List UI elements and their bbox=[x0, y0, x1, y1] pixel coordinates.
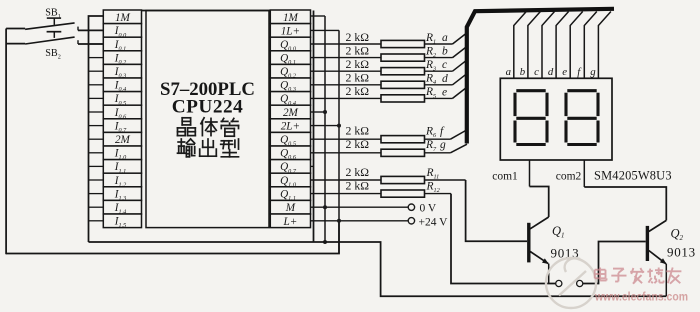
wire 2M to M bus bbox=[311, 111, 326, 113]
watermark text 电子发烧友 bbox=[595, 268, 682, 284]
wire R4 to segment bus (diagonal) bbox=[453, 74, 467, 85]
svg-text:9013: 9013 bbox=[667, 245, 696, 260]
wire com1 to Q1 collector bbox=[530, 187, 549, 218]
terminal Q0.7 (PLC right, output) bbox=[270, 160, 313, 175]
resistor R2 2kΩ (segment b) bbox=[311, 54, 453, 61]
terminal I0.5 (PLC left, input) bbox=[89, 92, 142, 107]
junction M bus / 0V rail bbox=[323, 240, 327, 244]
terminal Q0.4 (PLC right, output) bbox=[270, 92, 310, 107]
terminal 2M (PLC left, input) bbox=[89, 132, 142, 146]
svg-text:b: b bbox=[520, 66, 526, 78]
terminal Q0.1 (PLC right, output) bbox=[270, 51, 310, 66]
transistor Q1 (NPN 9013) bbox=[527, 217, 549, 264]
display digit 1 (7-segment) bbox=[515, 91, 547, 145]
terminal I1.4 (PLC left, input) bbox=[89, 200, 142, 215]
svg-text:+24 V: +24 V bbox=[419, 216, 449, 228]
svg-text:e: e bbox=[562, 66, 567, 78]
svg-text:SM4205W8U3: SM4205W8U3 bbox=[594, 168, 672, 182]
svg-text:0 V: 0 V bbox=[420, 203, 437, 215]
svg-text:a: a bbox=[506, 66, 511, 78]
svg-text:g: g bbox=[590, 66, 596, 78]
svg-text:2 kΩ: 2 kΩ bbox=[346, 57, 370, 71]
wire R2 to segment bus (diagonal) bbox=[453, 47, 467, 58]
terminal I0.2 (PLC left, input) bbox=[89, 51, 142, 66]
bus drop wire to display pin c bbox=[542, 12, 555, 79]
wire 1L+ to L+ bus bbox=[311, 29, 340, 31]
link terminal circle 2 bbox=[577, 280, 583, 286]
segment bus (thick) from resistors up and over to display pins bbox=[467, 9, 614, 144]
transistor Q2 (NPN 9013) bbox=[646, 220, 667, 264]
terminal 2M (PLC right, output) bbox=[270, 105, 310, 119]
wire R6 to segment bus (diagonal) bbox=[450, 131, 465, 140]
label 输出型 (output type, drawn strokes) bbox=[178, 139, 195, 157]
terminal I0.4 (PLC left, input) bbox=[89, 78, 142, 93]
svg-text:d: d bbox=[548, 66, 554, 78]
svg-text:2L+: 2L+ bbox=[281, 121, 300, 133]
resistor R6 2kΩ (segment f) bbox=[311, 136, 451, 143]
wire R1 to segment bus (diagonal) bbox=[453, 34, 467, 45]
resistor R1 2kΩ (segment a) bbox=[311, 40, 453, 47]
terminal I1.1 (PLC left, input) bbox=[89, 160, 142, 175]
resistor R3 2kΩ (segment c) bbox=[311, 68, 453, 75]
svg-text:2 kΩ: 2 kΩ bbox=[346, 71, 370, 85]
terminal I0.6 (PLC left, input) bbox=[89, 105, 142, 120]
watermark logo circle (elecfans) bbox=[546, 258, 596, 308]
wire link rail from circle2 up to Q2 base bbox=[583, 242, 646, 284]
junction L+ / L+ bus bbox=[337, 219, 341, 223]
L+ bus vertical (1L+/2L+/L+ common) bbox=[338, 30, 340, 253]
wire R5 to segment bus (diagonal) bbox=[453, 88, 467, 99]
terminal I0.3 (PLC left, input) bbox=[89, 64, 142, 79]
wire R7 to segment bus (diagonal) bbox=[450, 144, 467, 153]
resistor R4 2kΩ (segment d) bbox=[311, 81, 453, 88]
svg-text:2 kΩ: 2 kΩ bbox=[346, 43, 370, 57]
PLC U1 outer frame left side (1M common wire down to 0V rail) bbox=[89, 16, 104, 242]
bus drop wire to display pin g bbox=[598, 12, 611, 79]
wire: left vertical rail from switches down to +24V return rail bbox=[5, 29, 7, 255]
terminal Q1.1 (PLC right, output) bbox=[270, 187, 310, 202]
resistor R5 2kΩ (segment e) bbox=[311, 95, 453, 102]
PLC outer frame top edge bbox=[142, 10, 271, 12]
wire M row to 0V terminal bbox=[311, 206, 409, 208]
bus drop wire to display pin b bbox=[528, 12, 541, 79]
wire 2L+ to L+ bus bbox=[311, 125, 340, 127]
bus drop wire to display pin e bbox=[570, 12, 583, 79]
terminal Q0.2 (PLC right, output) bbox=[270, 64, 310, 79]
wire Q1 emitter down to link rail bbox=[548, 264, 550, 284]
svg-text:M: M bbox=[285, 202, 296, 214]
svg-text:2 kΩ: 2 kΩ bbox=[346, 84, 370, 98]
svg-text:1L+: 1L+ bbox=[281, 25, 300, 37]
svg-text:c: c bbox=[442, 59, 447, 71]
label 晶体管 (transistor, drawn strokes) bbox=[178, 118, 196, 136]
junction 2M / M bus bbox=[323, 110, 327, 114]
pushbutton SB1 bbox=[6, 18, 78, 30]
display digit 2 (7-segment) bbox=[566, 91, 598, 145]
terminal L+ (PLC right, output) bbox=[270, 214, 310, 228]
svg-text:2 kΩ: 2 kΩ bbox=[346, 165, 370, 179]
svg-text:2 kΩ: 2 kΩ bbox=[346, 178, 370, 192]
terminal I0.1 (PLC left, input) bbox=[89, 37, 142, 52]
bus drop wire to display pin f bbox=[584, 12, 597, 79]
svg-text:b: b bbox=[442, 46, 448, 58]
terminal I0.0 (PLC left, input) bbox=[103, 24, 141, 39]
svg-text:2M: 2M bbox=[283, 107, 299, 119]
svg-text:c: c bbox=[534, 66, 539, 78]
resistor R12 2kΩ (base of Q2) bbox=[311, 190, 452, 197]
svg-text:com2: com2 bbox=[556, 170, 582, 182]
wire com2 to Q2 collector bbox=[584, 187, 666, 220]
terminal 2L+ (PLC right, output) bbox=[270, 119, 310, 133]
terminal 1L+ (PLC right, output) bbox=[270, 24, 310, 38]
svg-text:e: e bbox=[442, 86, 447, 98]
svg-text:2M: 2M bbox=[115, 134, 131, 146]
display com2 pin wire bbox=[583, 160, 585, 187]
wire SB2 to PLC input I0.1 bbox=[78, 43, 103, 45]
terminal I1.5 (PLC left, input) bbox=[89, 214, 142, 229]
svg-text:a: a bbox=[442, 32, 448, 44]
svg-text:d: d bbox=[442, 73, 448, 85]
resistor R11 2kΩ (base of Q1) bbox=[311, 176, 466, 183]
svg-text:1M: 1M bbox=[115, 12, 131, 24]
terminal I0.7 (PLC left, input) bbox=[89, 119, 142, 134]
svg-text:com1: com1 bbox=[492, 170, 518, 182]
svg-text:L+: L+ bbox=[283, 216, 298, 228]
resistor R7 2kΩ (segment g) bbox=[311, 149, 451, 156]
0V rail from PLC bottom to Q2 emitter bbox=[89, 242, 667, 296]
junction 2L+ / L+ bus bbox=[337, 124, 341, 128]
terminal I1.0 (PLC left, input) bbox=[89, 146, 142, 161]
wire R12 down to link rail bbox=[451, 194, 556, 284]
wire Q2 emitter down to 0V rail bbox=[665, 264, 667, 296]
terminal Q0.6 (PLC right, output) bbox=[270, 146, 310, 161]
display com1 pin wire bbox=[529, 160, 531, 187]
terminal +24V bbox=[408, 218, 414, 224]
wire SB1 to PLC input I0.0 bbox=[78, 29, 103, 31]
terminal M (PLC right, output) bbox=[270, 200, 310, 214]
svg-text:2 kΩ: 2 kΩ bbox=[346, 124, 370, 138]
terminal 1M (PLC left, input) bbox=[103, 10, 141, 24]
terminal Q0.0 (PLC right, output) bbox=[270, 37, 310, 52]
terminal Q0.5 (PLC right, output) bbox=[270, 132, 310, 147]
PLC inner box (CPU body) bbox=[146, 11, 269, 228]
pushbutton SB2 bbox=[6, 32, 78, 44]
PLC outer frame right side bbox=[313, 11, 315, 243]
svg-text:2 kΩ: 2 kΩ bbox=[346, 30, 370, 44]
bus drop wire to display pin a bbox=[514, 12, 527, 79]
terminal I1.3 (PLC left, input) bbox=[89, 187, 142, 202]
wire R3 to segment bus (diagonal) bbox=[453, 61, 467, 71]
svg-text:www.elecfans.com: www.elecfans.com bbox=[594, 291, 688, 304]
terminal I1.2 (PLC left, input) bbox=[89, 173, 142, 188]
wire R11 to Q1 base bbox=[466, 180, 527, 241]
wire L+ row to +24V terminal bbox=[311, 220, 409, 222]
svg-text:g: g bbox=[440, 139, 446, 151]
terminal 1M (PLC right, output) bbox=[270, 10, 310, 24]
svg-text:2 kΩ: 2 kΩ bbox=[346, 137, 370, 151]
terminal Q0.3 (PLC right, output) bbox=[270, 78, 310, 93]
bus drop wire to display pin d bbox=[556, 12, 569, 79]
svg-text:1M: 1M bbox=[283, 12, 299, 24]
terminal Q1.0 (PLC right, output) bbox=[270, 173, 310, 188]
junction M / M bus bbox=[323, 205, 327, 209]
wire: +24V return rail along bottom (to L+ bus) bbox=[6, 221, 339, 254]
svg-text:CPU224: CPU224 bbox=[172, 96, 244, 117]
7-segment dual display SM4205W8U3 body bbox=[500, 78, 612, 160]
terminal 0V bbox=[408, 204, 414, 210]
link terminal circle 1 bbox=[556, 280, 562, 286]
M bus vertical (1M/2M/M common) bbox=[324, 16, 326, 242]
wire 1M to M bus bbox=[311, 15, 326, 17]
